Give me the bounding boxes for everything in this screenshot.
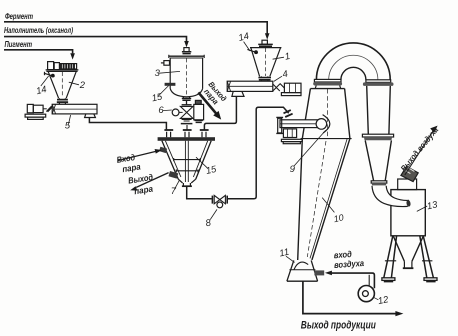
steam out thick arrow (tank) [198,92,216,113]
valve 14 on hopper 2 [44,73,55,76]
cyclone 13 tilted outlet nozzle [401,166,418,181]
motor of conveyor 5 [27,104,33,112]
conveyor 4 motor [284,83,301,92]
feeder 9 body [280,120,320,128]
feeder 9 left bracket [278,118,282,133]
fan 12 [358,286,374,302]
svg-text:10: 10 [333,212,345,224]
svg-text:6: 6 [158,104,164,115]
cyclone 13 cylinder [391,190,425,236]
mixer body outer wall [162,141,211,179]
mixer right nozzle [202,132,206,137]
cyclone 13 head [398,179,417,190]
tank 3 body [169,55,204,57]
steam out arrow (mixer) [136,173,168,188]
hopper 1 outlet [258,78,271,80]
tank 3 left gauge [164,61,170,66]
air inlet stub on skirt [314,270,324,275]
svg-text:Выход продукции: Выход продукции [301,320,376,332]
cyclone 13 cone [393,236,423,262]
U-bend duct outer arc [316,43,390,80]
wire conveyor 4 to mixer right nozzle [204,97,236,130]
mixer left nozzle [167,132,171,137]
feeder 9 inlet stub [284,110,293,117]
svg-text:2: 2 [79,79,86,90]
elbow duct to cyclone [372,186,409,207]
skirt 11 at tower bottom [287,260,318,281]
screw conveyor 5 [52,104,97,114]
cyclone 13 feet [382,278,395,281]
tank 3 bottom outlet [183,97,189,98]
hopper 2 feeder boxes on top [48,62,54,70]
svg-text:воздуха: воздуха [334,258,365,270]
wire ferment feed line to hopper 1 [4,22,267,34]
left flange of U-bend [314,79,341,82]
label Выход воздуха (rotated) [398,125,440,173]
conveyor 5 support [85,114,96,118]
cyclone 13 outlet [404,261,412,267]
feeder 9 motor [283,129,296,138]
svg-text:3: 3 [155,67,161,78]
wire pigment feed line to hopper 2 [4,50,73,54]
wire filler feed line to tank 3 [4,37,187,42]
tower 10 cone [298,139,350,260]
mixer paddles [174,158,201,161]
wire product outlet [303,281,396,313]
air inlet arrow [325,271,332,276]
wire mixer outlet to valve 8 [187,187,212,199]
right flange of U-bend [366,80,391,83]
steam in arrow [118,151,156,160]
label Выход пара (rotated, near tank) [200,80,228,109]
screw conveyor 4 [227,81,273,91]
mixer bottom cone and outlet [178,179,195,183]
hopper 2 outlet [57,100,68,103]
hopper 1 rim and cone [250,47,281,49]
U-bend mid seam arc [329,55,378,80]
cyclone 13 legs [384,236,434,278]
valve 6 [182,104,192,106]
conveyor 4 coupling [273,83,285,91]
hopper 1 top stub [262,40,267,44]
wire valve 8 to riser and to feeder 9 [227,107,288,199]
drying tower 10 top trapezoid [302,89,350,139]
right column cone [365,140,391,180]
tank 3 left stub (jacket nozzle) [165,83,176,86]
mixer center nozzle [185,132,189,137]
cone end flange [371,181,387,183]
hopper 2 rim [46,70,79,72]
conveyor 4 support [232,91,244,96]
tank 3 top stub [184,48,189,52]
mixer body inner wall (jacket) [165,141,207,177]
svg-text:Наполнитель (оксанол): Наполнитель (оксанол) [4,26,73,35]
hopper 2 cone [48,72,76,99]
mixer agitator shaft [185,141,188,182]
valve 14 on hopper 1 [247,49,257,53]
U-bend inner arc [341,67,366,80]
valve 8 [211,196,213,204]
right column of U-duct [367,86,391,134]
svg-text:Пигмент: Пигмент [5,39,33,49]
air exhaust arrow [405,131,434,175]
steam nozzle lower-left on mixer [168,171,178,179]
wire conveyor 5 to mixer left nozzle [89,118,166,130]
svg-text:5: 5 [65,121,71,132]
right column lower flange [362,134,393,137]
svg-text:Фермент: Фермент [5,11,33,21]
steam nozzle upper-left on mixer [159,147,167,153]
rotameter next to valve 6 [195,100,201,104]
mixer 7 lid [158,137,215,141]
